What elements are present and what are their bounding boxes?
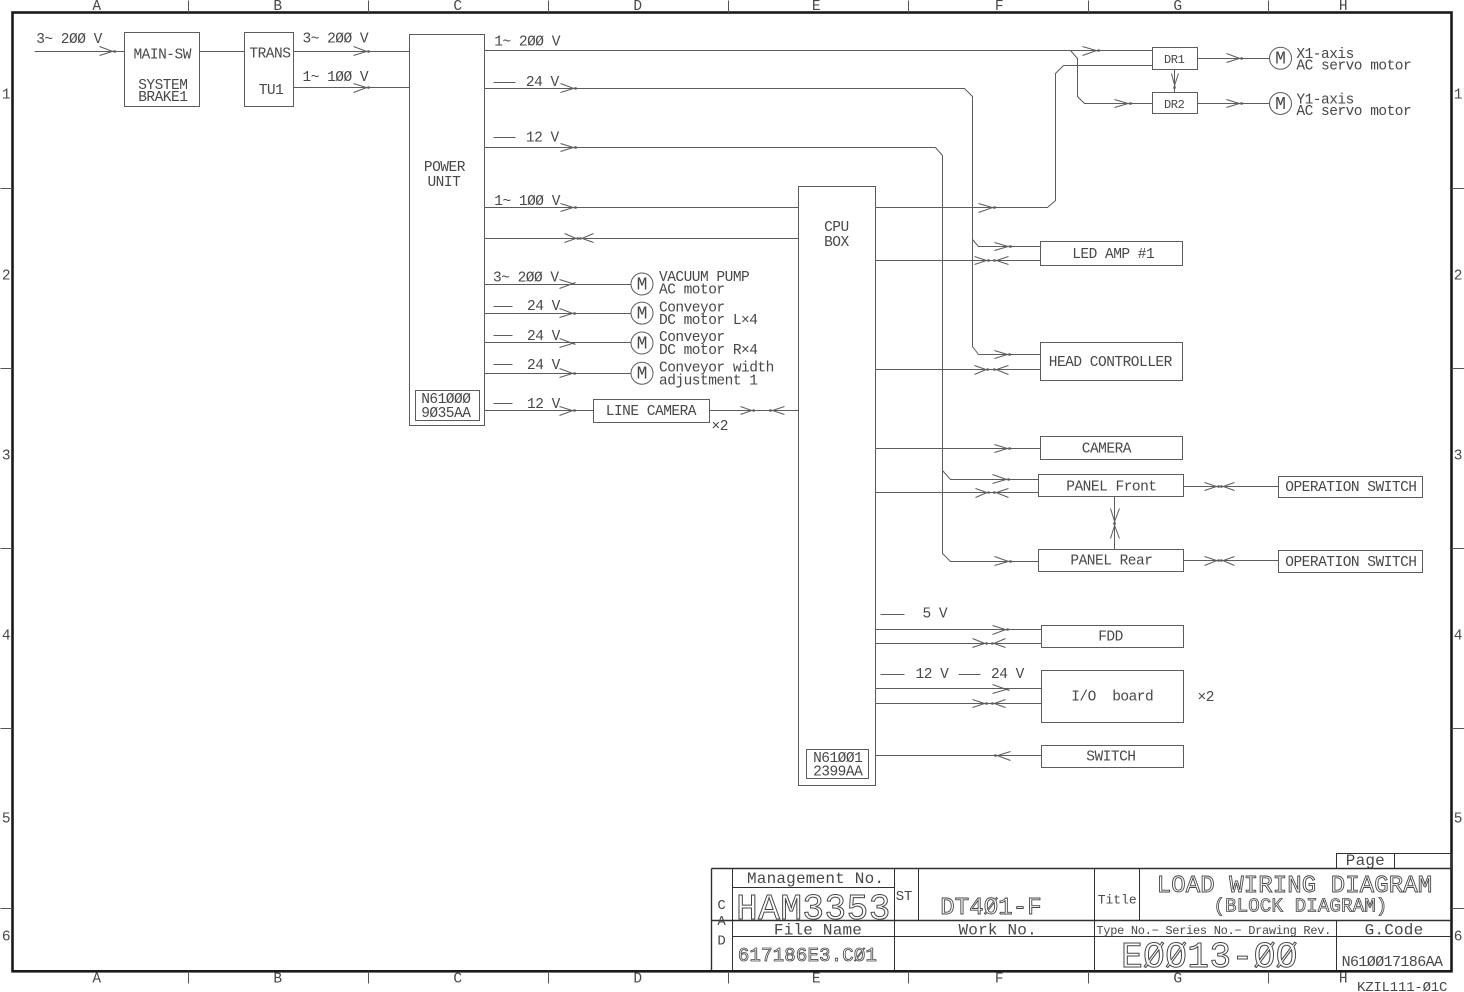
block OPERATION SWITCH (rear) — [1279, 551, 1423, 573]
motor M Y1-axis AC servo motor — [1270, 92, 1412, 120]
svg-text:×2: ×2 — [1198, 690, 1214, 706]
wire PANEL Rear to OPERATION SWITCH bidirectional — [1184, 557, 1279, 566]
svg-text:PANEL Rear: PANEL Rear — [1070, 554, 1152, 570]
svg-text:HEAD CONTROLLER: HEAD CONTROLLER — [1049, 355, 1173, 371]
svg-text:2: 2 — [2, 268, 10, 284]
wire LINE CAMERA to CPU BOX bidirectional — [710, 407, 799, 415]
wire DR1 to DR2 vertical arrow — [1172, 70, 1179, 93]
File Name 617186E3.C01 — [738, 922, 877, 968]
wire CPU BOX to PANEL Front bidirectional — [876, 489, 1039, 498]
svg-text:24 V: 24 V — [527, 299, 561, 315]
wire 1~100V POWER UNIT to CPU BOX — [485, 194, 799, 212]
wire CPU BOX to LED AMP bidirectional — [876, 257, 1041, 265]
wire 1~200V POWER UNIT to DR1 — [485, 35, 1153, 56]
svg-text:C: C — [453, 971, 462, 987]
svg-text:6: 6 — [1454, 929, 1462, 945]
servo driver DR2 — [1153, 93, 1198, 114]
block OPERATION SWITCH (front) — [1279, 477, 1423, 498]
wire CPU BOX to DR1 — [876, 66, 1153, 213]
svg-text:1: 1 — [1454, 87, 1462, 103]
svg-text:Management No.: Management No. — [747, 870, 884, 888]
wire 24V POWER UNIT down to HEAD CONTROLLER — [485, 75, 1041, 359]
G.Code N610017186AA — [1342, 922, 1443, 972]
svg-text:9Ø35AA: 9Ø35AA — [421, 406, 471, 422]
wire 24V branch to LED AMP — [973, 240, 1041, 251]
svg-text:12 V: 12 V — [916, 667, 950, 683]
svg-text:×2: ×2 — [712, 419, 728, 435]
svg-text:4: 4 — [1454, 628, 1462, 644]
wire DR2 to Y1-axis servo motor — [1198, 100, 1270, 108]
Work No. — [958, 922, 1036, 940]
block SWITCH — [1042, 746, 1184, 768]
svg-text:24 V: 24 V — [527, 329, 561, 345]
svg-text:MAIN-SW: MAIN-SW — [133, 48, 191, 64]
svg-text:4: 4 — [2, 628, 10, 644]
wire POWER UNIT / CPU BOX bidirectional — [485, 234, 799, 243]
svg-text:DR1: DR1 — [1164, 53, 1185, 67]
svg-text:LINE CAMERA: LINE CAMERA — [606, 404, 697, 420]
wire 3~200V mains input to MAIN-SW — [35, 32, 125, 55]
svg-text:Title: Title — [1098, 893, 1137, 908]
svg-text:File Name: File Name — [774, 922, 862, 940]
svg-text:ST: ST — [896, 889, 912, 905]
svg-text:KZIL111-Ø1C: KZIL111-Ø1C — [1357, 980, 1447, 992]
svg-text:AC servo motor: AC servo motor — [1296, 104, 1411, 120]
svg-text:M: M — [637, 365, 648, 385]
CAD letters — [717, 898, 726, 950]
svg-text:1~ 1ØØ V: 1~ 1ØØ V — [494, 194, 560, 210]
svg-text:G.Code: G.Code — [1365, 922, 1424, 940]
block POWER UNIT — [410, 35, 485, 426]
wire DR1 to X1-axis servo motor — [1198, 54, 1270, 63]
svg-text:2: 2 — [1454, 268, 1462, 284]
svg-text:BRAKE1: BRAKE1 — [138, 90, 187, 106]
svg-text:1~ 1ØØ V: 1~ 1ØØ V — [303, 70, 369, 86]
wire TRANS 3~200V to POWER UNIT — [294, 32, 410, 56]
block LINE CAMERA — [594, 400, 728, 436]
svg-text:M: M — [637, 276, 648, 296]
block CPU BOX — [799, 187, 876, 786]
svg-text:FDD: FDD — [1098, 630, 1123, 646]
block FDD — [1042, 626, 1184, 648]
svg-text:B: B — [273, 971, 282, 987]
svg-text:E: E — [812, 0, 820, 15]
title block — [712, 869, 1452, 971]
wire PANEL Front / PANEL Rear bidirectional vertical — [1111, 497, 1120, 550]
svg-text:1~ 2ØØ V: 1~ 2ØØ V — [494, 35, 560, 51]
wire TRANS 1~100V to POWER UNIT — [294, 70, 410, 92]
block HEAD CONTROLLER — [1041, 343, 1183, 381]
svg-text:12 V: 12 V — [526, 130, 560, 146]
svg-text:G: G — [1173, 0, 1181, 15]
wire 12V/24V CPU BOX to I/O board — [876, 667, 1042, 694]
part number label N61000 9035AA — [416, 391, 480, 423]
ST / DT401-F — [896, 889, 1042, 922]
wire MAIN-SW to TRANS — [200, 51, 245, 53]
svg-text:OPERATION SWITCH: OPERATION SWITCH — [1285, 555, 1416, 571]
svg-text:DT4Ø1-F: DT4Ø1-F — [940, 895, 1042, 922]
svg-text:EØØ13-ØØ: EØØ13-ØØ — [1121, 937, 1298, 978]
block I/O board x2 — [1042, 671, 1214, 723]
svg-text:E: E — [812, 971, 820, 987]
svg-text:D: D — [633, 0, 641, 15]
svg-text:TRANS: TRANS — [249, 46, 290, 62]
svg-text:A: A — [92, 971, 101, 987]
wire SWITCH to CPU BOX — [876, 752, 1042, 761]
svg-text:3~ 2ØØ V: 3~ 2ØØ V — [493, 271, 559, 287]
svg-text:LED AMP #1: LED AMP #1 — [1072, 247, 1154, 263]
svg-text:SWITCH: SWITCH — [1086, 750, 1135, 766]
svg-text:DC motor L×4: DC motor L×4 — [659, 313, 757, 329]
svg-text:DC motor R×4: DC motor R×4 — [659, 343, 757, 359]
motor M conveyor DC motor Rx4 — [631, 330, 757, 359]
svg-text:2399AA: 2399AA — [813, 765, 863, 781]
wire CPU BOX to I/O board bidirectional — [876, 700, 1042, 708]
Management No. HAM3353 — [736, 870, 891, 930]
wire 3~200V to vacuum pump motor — [485, 271, 631, 289]
wire 24V to conveyor width adjustment motor — [485, 358, 631, 377]
Page box — [1337, 852, 1452, 870]
svg-text:5 V: 5 V — [923, 607, 948, 623]
svg-text:OPERATION SWITCH: OPERATION SWITCH — [1285, 480, 1416, 496]
servo driver DR1 — [1153, 48, 1198, 70]
svg-text:A: A — [92, 0, 101, 15]
svg-text:Page: Page — [1346, 852, 1385, 870]
svg-text:M: M — [637, 305, 648, 325]
svg-text:H: H — [1339, 971, 1347, 987]
wire PANEL Front to OPERATION SWITCH bidirectional — [1184, 483, 1279, 491]
svg-text:H: H — [1339, 0, 1347, 15]
svg-text:AC servo motor: AC servo motor — [1296, 59, 1411, 75]
svg-text:M: M — [1275, 50, 1286, 70]
motor M conveyor DC motor Lx4 — [631, 300, 757, 329]
svg-text:POWER: POWER — [424, 160, 466, 176]
svg-text:5: 5 — [1454, 811, 1462, 827]
svg-text:24 V: 24 V — [527, 358, 561, 374]
wire 12V branch to PANEL Front — [943, 471, 1039, 484]
motor M X1-axis AC servo motor — [1270, 47, 1412, 75]
block LED AMP #1 — [1041, 242, 1183, 266]
Title LOAD WIRING DIAGRAM — [1098, 873, 1433, 918]
svg-text:6: 6 — [2, 929, 10, 945]
svg-text:D: D — [633, 971, 641, 987]
svg-text:B: B — [273, 0, 282, 15]
block PANEL Rear — [1039, 550, 1184, 572]
svg-text:F: F — [995, 971, 1003, 987]
svg-text:I/O board: I/O board — [1071, 690, 1153, 706]
svg-text:D: D — [717, 934, 725, 950]
svg-text:BOX: BOX — [824, 235, 849, 251]
svg-text:DR2: DR2 — [1164, 98, 1185, 112]
svg-text:CAMERA: CAMERA — [1082, 442, 1132, 458]
svg-text:Work No.: Work No. — [958, 922, 1036, 940]
svg-text:3~ 2ØØ V: 3~ 2ØØ V — [303, 32, 369, 48]
svg-text:(BLOCK DIAGRAM): (BLOCK DIAGRAM) — [1213, 896, 1387, 918]
svg-text:CPU: CPU — [824, 220, 849, 236]
svg-text:617186E3.CØ1: 617186E3.CØ1 — [738, 945, 877, 967]
svg-text:3: 3 — [2, 448, 10, 464]
svg-text:C: C — [453, 0, 462, 15]
block CAMERA — [1041, 437, 1183, 460]
svg-text:A: A — [717, 914, 726, 930]
svg-text:F: F — [995, 0, 1003, 15]
svg-text:5: 5 — [2, 811, 10, 827]
svg-text:24 V: 24 V — [526, 75, 560, 91]
svg-text:N61ØØ17186AA: N61ØØ17186AA — [1342, 954, 1443, 971]
wire 1~200V branch to DR2 — [1071, 51, 1153, 108]
motor M vacuum pump — [631, 270, 749, 299]
wire CPU BOX to FDD bidirectional — [876, 639, 1042, 648]
block PANEL Front — [1039, 475, 1184, 497]
motor M conveyor width adjustment 1 — [631, 361, 774, 390]
svg-text:adjustment 1: adjustment 1 — [659, 373, 757, 389]
transformer TU1 (TRANS) — [245, 33, 294, 107]
part number label N61001 2399AA — [807, 750, 869, 781]
svg-text:UNIT: UNIT — [427, 175, 461, 191]
wire 24V to conveyor motor R — [485, 329, 631, 347]
wire 5V CPU BOX to FDD — [876, 607, 1042, 635]
svg-text:12 V: 12 V — [527, 397, 561, 413]
block MAIN-SW / SYSTEM BRAKE1 — [125, 33, 200, 107]
sheet code KZIL111-01C — [1357, 980, 1447, 992]
svg-text:M: M — [1275, 95, 1286, 115]
svg-text:3: 3 — [1454, 448, 1462, 464]
svg-text:AC motor: AC motor — [659, 283, 725, 299]
svg-text:24 V: 24 V — [991, 667, 1025, 683]
wire CPU BOX to HEAD CONTROLLER bidirectional — [876, 366, 1041, 375]
Type No. Series No. Drawing Rev. E0013-00 — [1096, 924, 1331, 978]
wire 12V to LINE CAMERA — [485, 397, 594, 415]
svg-text:M: M — [637, 335, 648, 355]
svg-text:C: C — [717, 898, 725, 914]
svg-text:TU1: TU1 — [259, 83, 284, 99]
wire CPU BOX to CAMERA — [876, 445, 1041, 453]
wire 24V to conveyor motor L — [485, 299, 631, 317]
wire 12V POWER UNIT down to PANEL Rear — [485, 130, 1039, 565]
svg-text:3~ 2ØØ V: 3~ 2ØØ V — [36, 32, 102, 48]
svg-text:1: 1 — [2, 87, 10, 103]
svg-text:PANEL Front: PANEL Front — [1066, 479, 1156, 495]
